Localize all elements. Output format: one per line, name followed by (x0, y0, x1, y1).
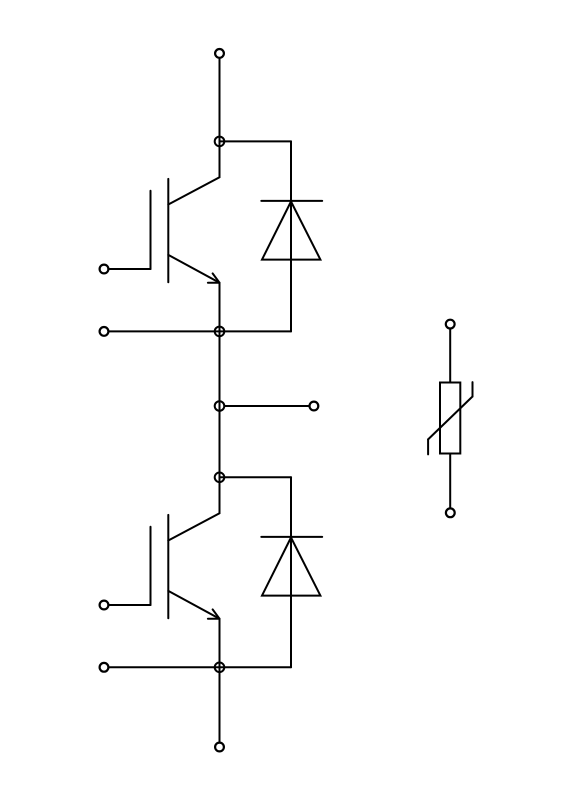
wire (168, 477, 219, 540)
terminal E2 (100, 663, 109, 672)
node N5 (215, 663, 225, 673)
node N4 (215, 473, 225, 483)
wire (104, 268, 151, 270)
wire (219, 331, 221, 477)
terminal N (bottom) (215, 743, 224, 752)
transistor Q2 (IGBT) (151, 515, 220, 619)
wire (290, 477, 292, 667)
wire (220, 140, 292, 142)
node N3 (215, 401, 225, 411)
wire (168, 591, 219, 667)
terminal G2 (100, 601, 109, 610)
terminal G1 (100, 265, 109, 274)
diode D2 (261, 537, 322, 596)
wire (168, 255, 219, 332)
wire (168, 141, 219, 204)
node N2 (215, 327, 225, 337)
wire (104, 666, 292, 668)
wire (224, 405, 314, 407)
terminal OUT (310, 402, 319, 411)
wire (449, 324, 451, 382)
wire (290, 141, 292, 331)
terminal P (top) (215, 49, 224, 58)
thermistor RT1 (NTC) (428, 382, 472, 454)
wire (104, 330, 292, 332)
wire (219, 667, 221, 747)
node N1 (215, 137, 225, 147)
wire (104, 604, 151, 606)
wire (219, 53, 221, 141)
wire (220, 476, 292, 478)
terminal E1 (100, 327, 109, 336)
terminal TH2 (446, 508, 455, 517)
transistor Q1 (IGBT) (151, 179, 220, 283)
wire (449, 454, 451, 513)
diode D1 (261, 201, 322, 260)
terminal TH1 (446, 320, 455, 329)
